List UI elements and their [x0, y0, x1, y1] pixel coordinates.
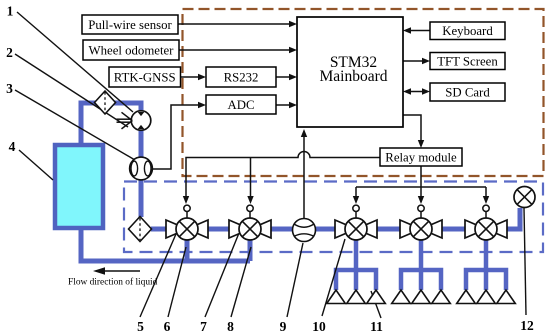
svg-text:10: 10 [312, 319, 326, 334]
svg-text:Pull-wire sensor: Pull-wire sensor [88, 18, 172, 32]
svg-text:9: 9 [280, 319, 287, 334]
svg-text:Wheel odometer: Wheel odometer [89, 44, 175, 58]
svg-text:Mainboard: Mainboard [319, 68, 387, 85]
svg-text:7: 7 [200, 319, 207, 334]
svg-text:11: 11 [370, 319, 383, 334]
svg-text:8: 8 [227, 319, 234, 334]
svg-text:Keyboard: Keyboard [442, 24, 493, 38]
svg-text:ADC: ADC [227, 98, 254, 112]
svg-text:SD Card: SD Card [445, 86, 490, 100]
svg-text:TFT Screen: TFT Screen [437, 55, 498, 69]
svg-text:12: 12 [520, 318, 534, 333]
svg-text:Relay module: Relay module [385, 151, 457, 165]
svg-text:3: 3 [6, 81, 13, 96]
svg-text:RS232: RS232 [224, 71, 259, 85]
svg-text:5: 5 [137, 319, 144, 334]
svg-text:4: 4 [9, 139, 16, 154]
svg-text:Flow direction of liquid: Flow direction of liquid [68, 277, 158, 288]
svg-text:6: 6 [164, 319, 171, 334]
svg-text:1: 1 [7, 4, 14, 19]
svg-text:RTK-GNSS: RTK-GNSS [114, 71, 176, 85]
svg-text:2: 2 [6, 45, 13, 60]
